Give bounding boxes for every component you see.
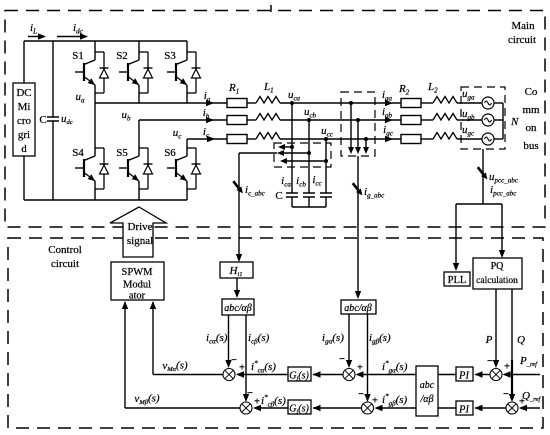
svg-text:+: +: [254, 397, 260, 408]
summing junction cap alpha: [223, 369, 235, 381]
diode D3: [192, 67, 201, 69]
svg-text:C: C: [275, 190, 282, 202]
wire Qref input: [521, 407, 541, 409]
node ucb: [307, 118, 311, 122]
block abc/ab (capacitor current): [222, 299, 254, 315]
SPWM input arrow vMa: [150, 301, 156, 309]
svg-text:calculation: calculation: [476, 276, 518, 286]
source ugb: [482, 114, 494, 126]
top border tick mark: [270, 5, 272, 12]
sensor tap icc: [324, 159, 328, 163]
wire PI to abc/ab lower: [438, 407, 456, 409]
inductor L1 phase a: [256, 97, 280, 104]
wire pcc to PQ calculation: [501, 204, 503, 252]
svg-text:+: +: [504, 362, 510, 373]
block PI lower: [456, 401, 473, 415]
svg-text:gri: gri: [18, 129, 30, 141]
inductor L1 phase c: [256, 133, 280, 140]
svg-text:signal: signal: [127, 235, 153, 247]
wire: top DC bus: [24, 40, 187, 42]
svg-text:PQ: PQ: [491, 261, 505, 272]
svg-text:DC: DC: [16, 87, 31, 99]
svg-text:Gi(s): Gi(s): [289, 404, 309, 416]
node uca: [290, 101, 294, 105]
node N bus: [502, 103, 504, 139]
current arrow iL: [28, 36, 41, 38]
svg-text:circuit: circuit: [51, 258, 79, 270]
wire: DC source to bottom bus: [23, 156, 25, 200]
svg-text:vMα(s): vMα(s): [162, 360, 188, 374]
capacitor C (dc link): [52, 41, 54, 117]
svg-text:ator: ator: [129, 291, 146, 302]
current arrow igb: [385, 117, 393, 123]
wire igb* reference: [376, 407, 416, 409]
svg-text:PI: PI: [458, 405, 469, 416]
svg-text:bus: bus: [523, 140, 538, 152]
source ugc: [482, 133, 494, 145]
diode D5: [144, 163, 153, 165]
wire Pref input: [504, 374, 540, 376]
wire: bottom DC bus: [24, 199, 187, 201]
svg-text:Drive: Drive: [127, 221, 152, 233]
SPWM modulator: [111, 262, 164, 300]
transistor S4: [94, 103, 96, 156]
grid current sensor (dashed box): [341, 92, 375, 156]
wire PI to abc/ab upper: [438, 374, 456, 376]
diode D2: [144, 67, 153, 69]
summing junction grid alpha: [343, 369, 355, 381]
wire ica* reference: [238, 374, 289, 376]
wire phase b with current arrow ib: [139, 119, 227, 121]
inductor L1 phase b: [256, 114, 280, 121]
inductor L2 phase b: [433, 114, 457, 121]
svg-text:Gi(s): Gi(s): [289, 371, 309, 383]
svg-text:+: +: [239, 363, 245, 374]
resistor R2 phase c: [401, 135, 421, 144]
svg-text:−: −: [247, 388, 253, 399]
summing junction Q: [506, 402, 518, 414]
svg-text:mm: mm: [522, 104, 540, 116]
wire pcc measurement: [482, 149, 484, 204]
svg-text:+: +: [357, 363, 363, 374]
wire vMb(s): [125, 407, 240, 409]
wire P junction to PI: [475, 374, 490, 376]
wire iga* reference: [357, 374, 416, 376]
svg-text:−: −: [358, 389, 364, 400]
svg-text:abc/αβ: abc/αβ: [224, 303, 251, 314]
svg-text:S5: S5: [116, 147, 128, 159]
block Gi lower: [288, 400, 311, 414]
sensor tap ica: [290, 145, 294, 149]
svg-text:Mi: Mi: [18, 101, 31, 113]
sensor tap icb: [307, 151, 311, 155]
diode D1: [100, 67, 109, 69]
wire Hi1 to abc/ab: [236, 278, 238, 294]
svg-text:circuit: circuit: [508, 34, 536, 46]
wire icb(s): [245, 315, 247, 396]
svg-text:/αβ: /αβ: [419, 394, 433, 405]
svg-text:−: −: [503, 389, 509, 400]
block PLL: [444, 272, 470, 286]
drive signal arrow: [110, 207, 166, 257]
inductor L2 phase a: [433, 97, 457, 104]
node ucc: [324, 137, 328, 141]
svg-text:−: −: [487, 356, 493, 367]
wire source c to N bus: [494, 138, 503, 140]
wire filter star bus: [292, 206, 326, 208]
wire Q: [511, 289, 513, 360]
wire R1b-L1b: [247, 119, 256, 121]
summing junction P: [490, 369, 502, 381]
wire grid alpha to Gi: [313, 374, 343, 376]
transistor S2: [138, 41, 140, 60]
svg-text:S6: S6: [164, 147, 176, 159]
summing junction cap beta: [240, 402, 252, 414]
svg-text:−: −: [231, 355, 237, 366]
wire source b to N bus: [494, 119, 503, 121]
svg-text:S2: S2: [116, 50, 128, 62]
control circuit boundary (dashed box): [8, 238, 543, 428]
resistor R2 phase a: [401, 99, 421, 108]
capacitor C filter c: [320, 192, 332, 194]
grid sources boundary (dashed box): [461, 87, 505, 149]
resistor R2 phase b: [401, 116, 421, 125]
summing junction grid beta: [362, 402, 374, 414]
svg-text:+: +: [372, 396, 378, 407]
wire icb* reference: [255, 407, 289, 409]
svg-text:PLL: PLL: [448, 275, 467, 286]
svg-text:abc/αβ: abc/αβ: [344, 303, 371, 314]
svg-text:Co: Co: [525, 86, 538, 98]
wire grid beta to Gi: [313, 407, 362, 409]
wire igb(s): [367, 314, 369, 396]
transistor S6: [186, 139, 188, 156]
wire vMa(s): [153, 374, 223, 376]
current arrow idc: [57, 36, 82, 38]
sensor tap igb: [356, 118, 360, 122]
svg-text:PI: PI: [458, 371, 469, 382]
svg-text:S3: S3: [164, 50, 176, 62]
measurement slash ic_abc: [233, 181, 240, 190]
wire phase c with current arrow ic: [187, 138, 227, 140]
wire iga(s): [348, 314, 350, 362]
svg-text:d: d: [21, 143, 27, 155]
block abc/ab (grid current): [341, 300, 376, 314]
main circuit boundary (dashed box): [5, 11, 545, 228]
diode D4: [100, 163, 109, 165]
wire L1c to R2c: [280, 138, 401, 140]
svg-text:S4: S4: [72, 147, 84, 159]
transistor S3: [186, 41, 188, 60]
measurement slash pcc: [478, 167, 485, 176]
wire ig_abc to abc/ab block: [357, 156, 359, 294]
svg-text:SPWM: SPWM: [122, 267, 154, 278]
capacitor current sensor (dashed box): [274, 143, 331, 167]
SPWM input arrow vMb: [122, 301, 128, 309]
wire R2a-L2a: [421, 102, 433, 104]
svg-text:N: N: [510, 116, 519, 128]
svg-text:Main: Main: [511, 20, 535, 32]
wire Q junction to PI: [475, 407, 506, 409]
svg-text:cro: cro: [17, 115, 32, 127]
svg-text:vMβ(s): vMβ(s): [134, 393, 159, 407]
wire P: [495, 289, 497, 362]
resistor R1 phase b: [227, 116, 247, 125]
svg-text:−: −: [339, 354, 345, 365]
resistor R1 phase c: [227, 135, 247, 144]
svg-text:S1: S1: [72, 50, 84, 62]
wire ica(s): [228, 315, 230, 362]
wire pcc to PLL: [455, 204, 457, 265]
block PI upper: [456, 367, 473, 381]
capacitor C filter b: [303, 192, 315, 194]
wire L2b to source b: [457, 119, 482, 121]
sensor tap iga: [349, 101, 353, 105]
svg-text:C: C: [39, 114, 46, 126]
resistor R1 phase a: [227, 99, 247, 108]
svg-text:Q: Q: [517, 334, 525, 346]
wire R2b-L2b: [421, 119, 433, 121]
wire R1c-L1c: [247, 138, 256, 140]
wire filter leg a: [291, 103, 293, 193]
svg-text:abc: abc: [420, 380, 435, 391]
measurement slash ig_abc: [353, 183, 360, 192]
wire phase a with current arrow ia: [95, 102, 227, 104]
wire R1a-L1a: [247, 102, 256, 104]
inductor L2 phase c: [433, 133, 457, 140]
wire L2c to source c: [457, 138, 482, 140]
block PQ calculation: [473, 258, 522, 289]
svg-text:Control: Control: [48, 244, 82, 256]
wire: DC source to top bus: [23, 41, 25, 83]
block Hi1: [220, 262, 253, 278]
capacitor C filter a: [286, 192, 298, 194]
wire L1b to R2b: [280, 119, 401, 121]
svg-text:on: on: [526, 122, 538, 134]
wire filter leg c: [325, 139, 327, 193]
wire filter leg b: [308, 120, 310, 193]
transistor S1: [94, 41, 96, 60]
DC microgrid source: [13, 83, 35, 156]
wire ic_abc horizontal: [239, 152, 277, 154]
svg-text:P: P: [485, 334, 493, 346]
wire ic_abc to Hi1: [238, 153, 240, 258]
wire L2a to source a: [457, 102, 482, 104]
wire R2c-L2c: [421, 138, 433, 140]
diode D6: [192, 163, 201, 165]
source uga: [482, 97, 494, 109]
sensor tap igc: [364, 137, 368, 141]
wire L1a to R2a: [280, 102, 401, 104]
block abc/ab (reference): [416, 366, 438, 416]
transistor S5: [138, 120, 140, 156]
wire pcc tee: [456, 203, 502, 205]
svg-text:Modul: Modul: [123, 280, 151, 291]
current arrow igc: [385, 136, 393, 142]
wire source a to N bus: [494, 102, 503, 104]
block Gi upper: [288, 367, 311, 381]
current arrow iga: [385, 100, 393, 106]
